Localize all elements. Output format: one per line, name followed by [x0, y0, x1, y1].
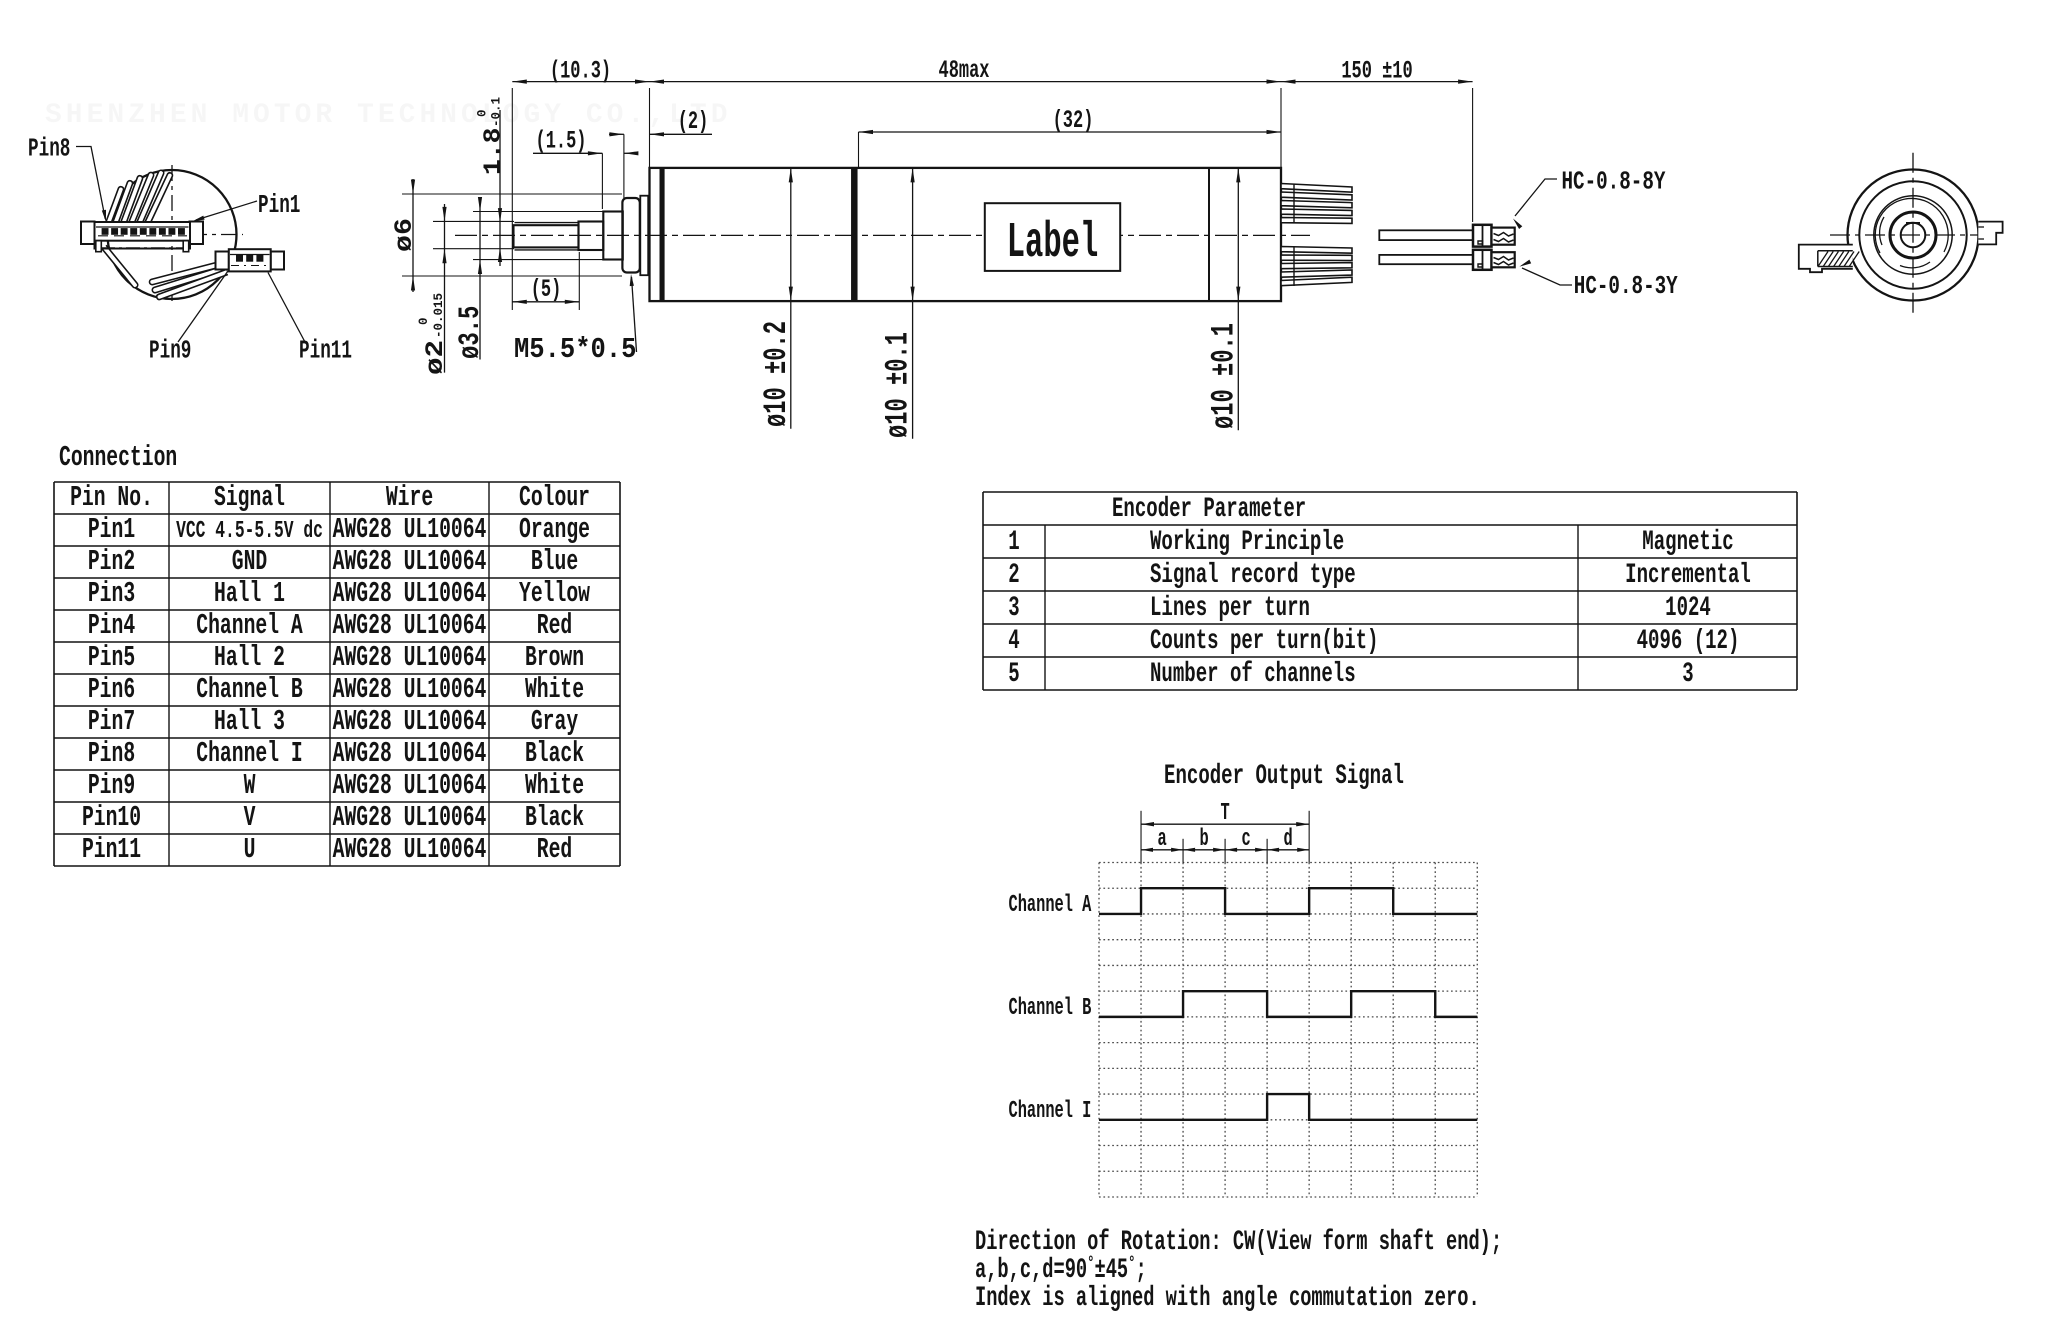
svg-text:W: W — [244, 770, 256, 803]
svg-text:Gray: Gray — [531, 706, 578, 739]
svg-text:AWG28 UL10064: AWG28 UL10064 — [333, 674, 487, 707]
svg-text:Pin4: Pin4 — [88, 610, 135, 643]
svg-text:Channel B: Channel B — [196, 674, 303, 707]
svg-text:T: T — [1220, 800, 1229, 827]
svg-text:AWG28 UL10064: AWG28 UL10064 — [333, 706, 487, 739]
svg-text:5: 5 — [1008, 659, 1019, 691]
svg-text:Pin11: Pin11 — [299, 335, 352, 365]
svg-text:Black: Black — [525, 738, 584, 771]
svg-text:(32): (32) — [1053, 107, 1094, 135]
svg-text:Brown: Brown — [525, 642, 584, 675]
svg-text:a: a — [1157, 826, 1166, 853]
svg-text:1024: 1024 — [1665, 593, 1711, 625]
svg-text:Colour: Colour — [519, 482, 590, 515]
svg-text:White: White — [525, 770, 584, 803]
svg-text:1: 1 — [1008, 527, 1019, 559]
svg-text:Hall 3: Hall 3 — [214, 706, 285, 739]
svg-text:Channel I: Channel I — [196, 738, 302, 771]
svg-text:Pin5: Pin5 — [88, 642, 135, 675]
svg-text:4096 (12): 4096 (12) — [1637, 626, 1740, 658]
svg-text:VCC 4.5-5.5V dc: VCC 4.5-5.5V dc — [176, 518, 323, 545]
svg-text:Signal record type: Signal record type — [1150, 560, 1356, 592]
svg-text:AWG28 UL10064: AWG28 UL10064 — [333, 514, 487, 547]
svg-text:ø10 ±0.1: ø10 ±0.1 — [881, 332, 917, 438]
svg-text:d: d — [1284, 826, 1293, 853]
svg-text:Pin6: Pin6 — [88, 674, 135, 707]
svg-text:U: U — [244, 834, 256, 867]
svg-text:GND: GND — [232, 546, 267, 579]
svg-text:150 ±10: 150 ±10 — [1341, 58, 1412, 86]
svg-text:Pin No.: Pin No. — [70, 482, 153, 515]
svg-text:Index is aligned with angle co: Index is aligned with angle commutation … — [975, 1283, 1480, 1315]
svg-text:Red: Red — [537, 834, 572, 867]
svg-text:48max: 48max — [939, 57, 990, 85]
svg-text:ø3.5: ø3.5 — [453, 306, 487, 359]
svg-text:ø6: ø6 — [391, 218, 419, 252]
svg-text:Pin9: Pin9 — [149, 335, 191, 365]
svg-text:White: White — [525, 674, 584, 707]
svg-text:Connection: Connection — [59, 442, 177, 475]
svg-text:Encoder Output Signal: Encoder Output Signal — [1164, 761, 1404, 793]
svg-text:Red: Red — [537, 610, 572, 643]
svg-text:Encoder Parameter: Encoder Parameter — [1112, 494, 1306, 526]
svg-text:Lines per turn: Lines per turn — [1150, 593, 1310, 625]
svg-text:Label: Label — [1007, 216, 1099, 272]
svg-text:0: 0 — [417, 317, 431, 325]
svg-text:AWG28 UL10064: AWG28 UL10064 — [333, 738, 487, 771]
svg-text:M5.5*0.5: M5.5*0.5 — [514, 334, 636, 367]
svg-text:SHENZHEN MOTOR TECHNOLOGY CO.,: SHENZHEN MOTOR TECHNOLOGY CO.,LTD — [45, 100, 732, 131]
svg-text:Direction of Rotation: CW(View: Direction of Rotation: CW(View form shaf… — [975, 1227, 1502, 1259]
svg-text:Pin9: Pin9 — [88, 770, 135, 803]
svg-text:Orange: Orange — [519, 514, 590, 547]
svg-text:AWG28 UL10064: AWG28 UL10064 — [333, 610, 487, 643]
svg-text:b: b — [1199, 826, 1208, 853]
svg-text:Counts per turn(bit): Counts per turn(bit) — [1150, 626, 1378, 658]
svg-text:(10.3): (10.3) — [550, 58, 611, 86]
svg-text:Pin8: Pin8 — [28, 133, 70, 163]
svg-text:ø10 ±0.1: ø10 ±0.1 — [1207, 323, 1243, 429]
svg-text:AWG28 UL10064: AWG28 UL10064 — [333, 770, 487, 803]
svg-text:V: V — [244, 802, 256, 835]
svg-text:3: 3 — [1008, 593, 1019, 625]
svg-text:Black: Black — [525, 802, 584, 835]
svg-text:a,b,c,d=90°±45°;: a,b,c,d=90°±45°; — [975, 1253, 1147, 1287]
svg-text:Pin8: Pin8 — [88, 738, 135, 771]
svg-text:Magnetic: Magnetic — [1642, 527, 1733, 559]
svg-text:Incremental: Incremental — [1625, 560, 1751, 592]
svg-text:4: 4 — [1008, 626, 1019, 658]
svg-text:AWG28 UL10064: AWG28 UL10064 — [333, 834, 487, 867]
svg-text:3: 3 — [1682, 659, 1693, 691]
svg-text:Yellow: Yellow — [519, 578, 590, 611]
svg-text:Pin10: Pin10 — [82, 802, 141, 835]
svg-text:Pin1: Pin1 — [258, 190, 300, 220]
svg-text:Channel A: Channel A — [1009, 892, 1093, 919]
svg-text:Pin11: Pin11 — [82, 834, 141, 867]
svg-text:ø10 ±0.2: ø10 ±0.2 — [759, 321, 795, 427]
svg-text:Hall 1: Hall 1 — [214, 578, 285, 611]
svg-text:Pin2: Pin2 — [88, 546, 135, 579]
svg-text:Pin7: Pin7 — [88, 706, 135, 739]
svg-text:Wire: Wire — [386, 482, 433, 515]
svg-text:AWG28 UL10064: AWG28 UL10064 — [333, 546, 487, 579]
svg-text:Hall 2: Hall 2 — [214, 642, 285, 675]
svg-text:(1.5): (1.5) — [536, 128, 587, 156]
svg-text:Signal: Signal — [214, 482, 285, 515]
svg-text:HC-0.8-8Y: HC-0.8-8Y — [1562, 167, 1666, 196]
svg-text:AWG28 UL10064: AWG28 UL10064 — [333, 578, 487, 611]
svg-text:AWG28 UL10064: AWG28 UL10064 — [333, 642, 487, 675]
svg-text:HC-0.8-3Y: HC-0.8-3Y — [1574, 272, 1678, 301]
svg-text:AWG28 UL10064: AWG28 UL10064 — [333, 802, 487, 835]
svg-text:(5): (5) — [531, 276, 562, 304]
svg-text:2: 2 — [1008, 560, 1019, 592]
svg-text:c: c — [1242, 826, 1251, 853]
svg-text:Blue: Blue — [531, 546, 578, 579]
svg-text:Channel B: Channel B — [1009, 995, 1092, 1022]
svg-text:Working Principle: Working Principle — [1150, 527, 1344, 559]
svg-text:Channel A: Channel A — [196, 610, 303, 643]
svg-text:1.8: 1.8 — [480, 127, 508, 175]
svg-text:ø2: ø2 — [422, 340, 450, 375]
svg-text:Channel I: Channel I — [1009, 1098, 1092, 1125]
svg-text:Pin1: Pin1 — [88, 514, 135, 547]
svg-text:Number of channels: Number of channels — [1150, 659, 1356, 691]
svg-text:Pin3: Pin3 — [88, 578, 135, 611]
svg-text:-0.015: -0.015 — [432, 293, 446, 338]
